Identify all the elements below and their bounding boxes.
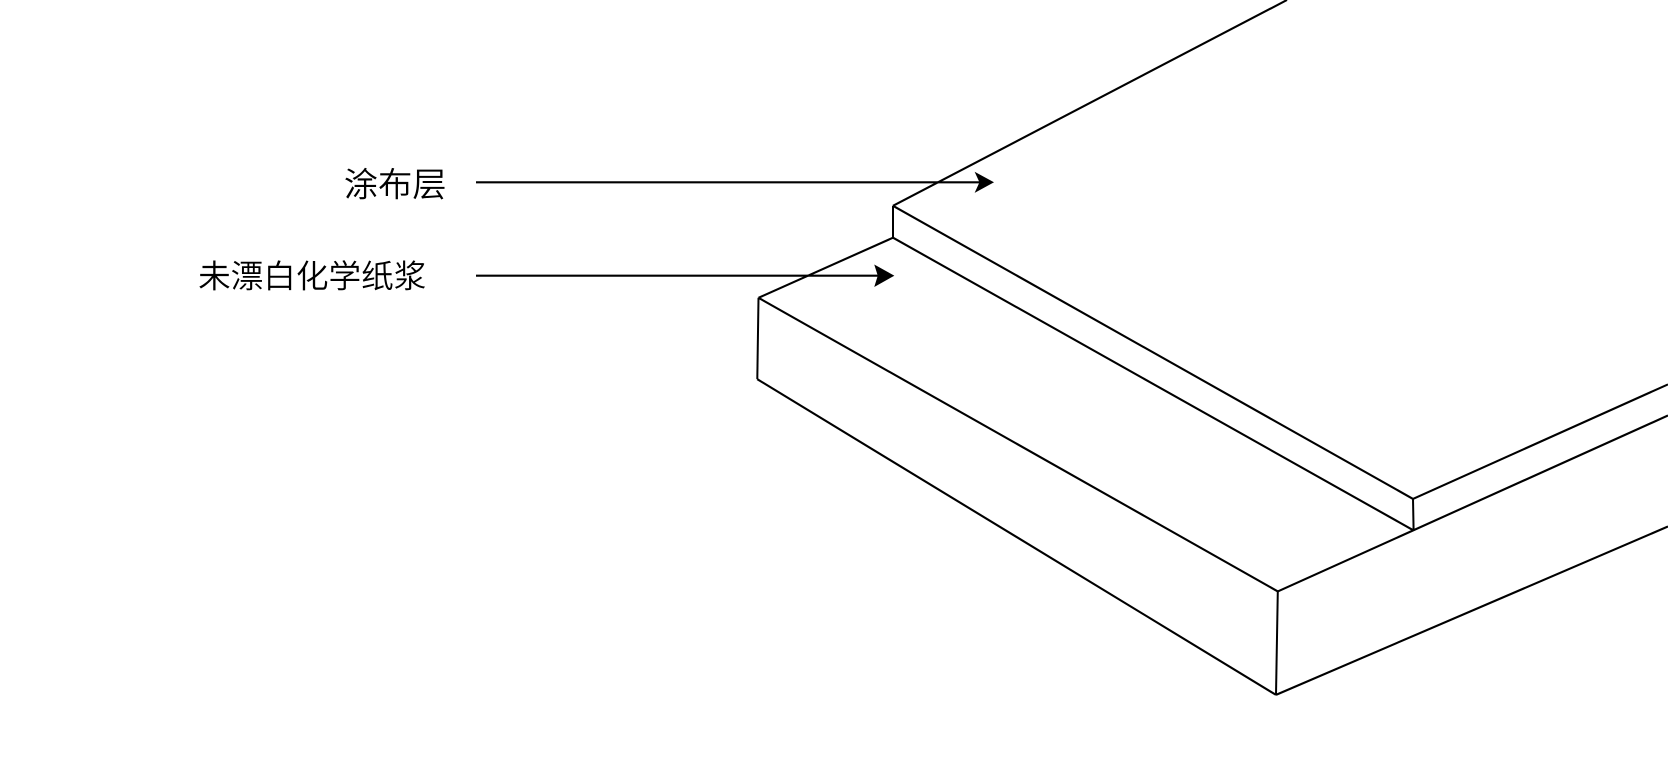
coating front bottom edge (893, 238, 1414, 531)
pulp top-right edge (1278, 416, 1668, 592)
pulp bottom-right edge (1276, 527, 1668, 695)
label text 涂布层 (coating layer) (345, 168, 444, 200)
leader arrow to coating layer (476, 181, 982, 183)
coating far top edge (893, 0, 1287, 206)
label text 未漂白化学纸浆 (unbleached chemical pulp) (199, 260, 425, 290)
coating left vertical edge (892, 206, 894, 238)
coating top-right edge (1413, 384, 1668, 499)
leader arrow to pulp layer (476, 275, 880, 277)
pulp top front-left edge (759, 298, 1278, 592)
coating front top edge (893, 206, 1413, 499)
exposed pulp ledge back edge (759, 238, 894, 298)
pulp front corner vertical edge (1276, 591, 1278, 695)
pulp left vertical edge (757, 298, 758, 379)
pulp bottom-left edge (757, 379, 1276, 695)
coating right vertical edge (1412, 499, 1415, 531)
